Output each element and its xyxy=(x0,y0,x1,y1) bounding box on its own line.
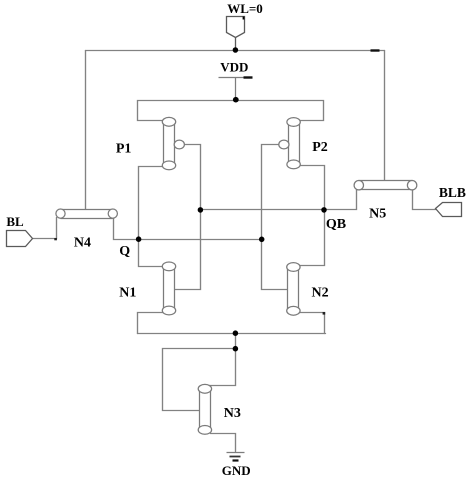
svg-text:N2: N2 xyxy=(312,285,329,300)
wire ground rail xyxy=(138,333,326,335)
wire N1 source to ground rail xyxy=(138,313,167,334)
svg-text:N4: N4 xyxy=(74,235,91,250)
power VDD xyxy=(219,78,253,99)
node WL junction xyxy=(233,47,239,53)
svg-text:VDD: VDD xyxy=(220,60,248,75)
svg-text:Q: Q xyxy=(119,244,130,259)
svg-text:WL=0: WL=0 xyxy=(227,1,263,16)
wire rail to N3 node xyxy=(235,334,237,349)
wire P1 drain to Q xyxy=(139,167,167,239)
wire BL to N4 xyxy=(33,218,57,239)
wire WL right drop (N5 gate) xyxy=(384,51,386,181)
wire WL rail xyxy=(86,50,385,52)
node Q xyxy=(136,236,142,242)
junction P1 gate on QB line xyxy=(198,207,204,213)
wire N5 to BLB xyxy=(413,190,436,210)
transistor N1 xyxy=(162,262,175,315)
port BL xyxy=(7,231,33,247)
wire Q line to cross-couple xyxy=(139,239,262,241)
wire N3 gate loop xyxy=(163,349,236,411)
wire WL left drop (N4 gate) xyxy=(85,51,87,210)
wire Q to N1 drain xyxy=(139,239,167,267)
svg-text:P1: P1 xyxy=(116,141,132,156)
svg-text:N1: N1 xyxy=(119,286,136,301)
svg-text:GND: GND xyxy=(222,463,251,478)
transistor N3 xyxy=(198,384,211,434)
tick BL wire corner xyxy=(54,238,57,240)
wire VDD rail xyxy=(138,101,324,121)
svg-text:BLB: BLB xyxy=(439,185,466,200)
tick WL rail dark segment xyxy=(371,49,380,51)
svg-text:BL: BL xyxy=(6,214,24,229)
svg-text:N3: N3 xyxy=(224,406,241,421)
wire P1 gate cross-couple to N1 gate xyxy=(175,145,201,290)
transistor N2 xyxy=(287,263,300,316)
wire N3 source to ground xyxy=(211,434,236,452)
tick N2 source corner xyxy=(323,312,326,315)
port BLB xyxy=(436,203,462,217)
node VDD junction xyxy=(233,97,239,103)
junction P2 gate on Q line xyxy=(259,237,265,243)
junction ground rail xyxy=(233,330,239,336)
port WL xyxy=(227,17,245,49)
wire P2 drain to QB xyxy=(297,166,325,210)
node N3 drain-gate xyxy=(233,346,239,352)
transistor N4 xyxy=(56,209,118,219)
wire N2 source to ground rail xyxy=(297,313,325,334)
svg-text:P2: P2 xyxy=(312,140,328,155)
wire QB line to N5 xyxy=(201,190,357,210)
svg-text:N5: N5 xyxy=(369,206,386,221)
ground xyxy=(227,453,245,461)
wire N4 to Q xyxy=(114,219,139,240)
wire QB to N2 drain xyxy=(297,210,325,266)
svg-text:QB: QB xyxy=(326,217,346,232)
transistor N5 xyxy=(354,180,417,190)
wire P2 gate cross-couple to N2 gate xyxy=(262,145,289,290)
wire N3 drain xyxy=(207,349,236,386)
node QB xyxy=(321,207,327,213)
transistor P1 xyxy=(162,117,184,169)
transistor P2 xyxy=(279,118,301,169)
